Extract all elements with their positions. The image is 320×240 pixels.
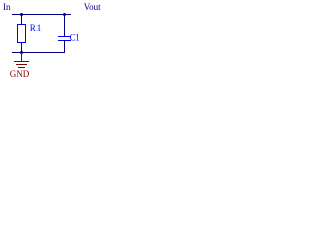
node junction at capacitor top xyxy=(63,13,66,16)
capacitor C1 bottom plate xyxy=(58,40,71,42)
svg-text:Vout: Vout xyxy=(84,2,101,12)
resistor R1 body xyxy=(18,25,26,43)
wire capacitor top lead xyxy=(64,15,66,37)
svg-text:C1: C1 xyxy=(70,32,80,42)
wire bottom horizontal xyxy=(12,52,65,54)
ground bar 2 xyxy=(16,64,27,66)
svg-text:GND: GND xyxy=(10,69,30,79)
ground bar 3 xyxy=(18,67,25,69)
ground bar 1 xyxy=(14,61,29,63)
node junction at resistor top xyxy=(20,13,23,16)
wire top horizontal xyxy=(12,14,71,16)
wire capacitor bottom lead xyxy=(64,41,66,54)
node junction at ground xyxy=(20,51,23,54)
capacitor C1 top plate xyxy=(58,36,71,38)
ground stub xyxy=(21,53,23,62)
svg-text:In: In xyxy=(3,2,11,12)
wire resistor top lead xyxy=(21,15,23,25)
wire resistor bottom lead xyxy=(21,43,23,53)
svg-text:R1: R1 xyxy=(30,23,43,33)
